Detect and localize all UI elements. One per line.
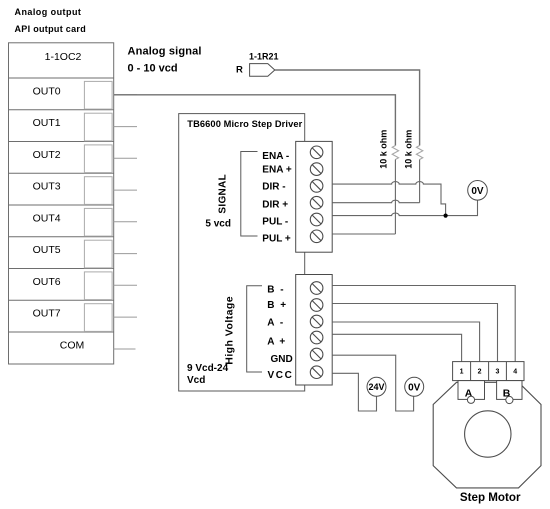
svg-text:10 k ohm: 10 k ohm <box>379 130 389 169</box>
svg-text:PUL +: PUL + <box>262 233 291 244</box>
svg-text:1: 1 <box>460 369 464 376</box>
svg-text:OUT2: OUT2 <box>33 149 61 161</box>
svg-text:PUL -: PUL - <box>262 217 288 228</box>
svg-text:A +: A + <box>267 336 286 347</box>
svg-text:GND: GND <box>271 354 293 365</box>
svg-text:9 Vcd-24: 9 Vcd-24 <box>187 363 229 374</box>
svg-text:24V: 24V <box>368 382 384 392</box>
svg-text:OUT7: OUT7 <box>33 308 61 320</box>
svg-text:VCC: VCC <box>268 370 294 381</box>
svg-text:Step Motor: Step Motor <box>460 491 521 504</box>
svg-text:R: R <box>236 65 243 76</box>
svg-text:Analog signal: Analog signal <box>128 46 202 58</box>
svg-text:0V: 0V <box>471 186 484 197</box>
svg-text:API output card: API output card <box>15 24 87 34</box>
svg-text:OUT1: OUT1 <box>33 117 61 129</box>
svg-text:OUT4: OUT4 <box>33 213 61 225</box>
svg-text:High Voltage: High Voltage <box>224 296 236 365</box>
svg-text:DIR +: DIR + <box>262 199 288 210</box>
svg-text:Analog output: Analog output <box>15 7 82 17</box>
svg-text:1-1OC2: 1-1OC2 <box>45 51 82 63</box>
svg-text:ENA +: ENA + <box>262 165 292 176</box>
svg-text:SIGNAL: SIGNAL <box>217 174 228 214</box>
svg-text:0 - 10 vcd: 0 - 10 vcd <box>128 63 178 75</box>
svg-text:B +: B + <box>267 300 287 311</box>
svg-text:COM: COM <box>60 340 85 352</box>
svg-text:4: 4 <box>513 369 517 376</box>
svg-text:TB6600 Micro Step Driver: TB6600 Micro Step Driver <box>187 119 302 129</box>
svg-text:0V: 0V <box>408 382 421 393</box>
svg-text:DIR -: DIR - <box>262 181 285 192</box>
svg-text:1-1R21: 1-1R21 <box>249 52 279 62</box>
svg-text:10 k ohm: 10 k ohm <box>403 130 413 169</box>
svg-text:2: 2 <box>478 369 482 376</box>
svg-text:ENA -: ENA - <box>262 151 289 162</box>
svg-text:A -: A - <box>267 318 284 329</box>
svg-text:OUT3: OUT3 <box>33 181 61 193</box>
svg-text:OUT0: OUT0 <box>33 86 61 98</box>
svg-text:5 vcd: 5 vcd <box>205 218 231 229</box>
svg-text:OUT5: OUT5 <box>33 244 61 256</box>
svg-text:Vcd: Vcd <box>187 375 205 386</box>
svg-text:OUT6: OUT6 <box>33 276 61 288</box>
svg-text:B -: B - <box>267 284 285 295</box>
svg-text:3: 3 <box>496 369 500 376</box>
